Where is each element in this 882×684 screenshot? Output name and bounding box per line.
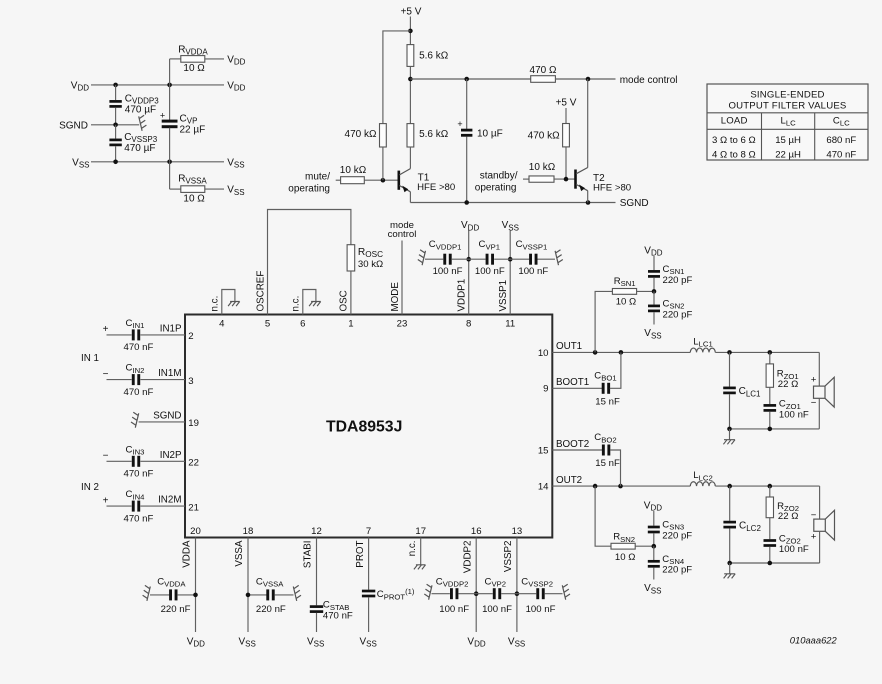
- node CSN3-CSN4: [652, 544, 657, 549]
- svg-text:100 nF: 100 nF: [779, 409, 809, 420]
- svg-text:PROT: PROT: [355, 540, 366, 567]
- signal ground CVDDA: [143, 585, 151, 601]
- svg-text:VSSP2: VSSP2: [503, 541, 514, 573]
- signal ground left of CVDDP2: [424, 584, 432, 600]
- svg-text:SGND: SGND: [153, 411, 181, 422]
- resistor RVDDA: [169, 59, 171, 85]
- svg-text:OUT2: OUT2: [556, 475, 582, 486]
- wire pin 20 VDDA: [195, 538, 197, 633]
- node CZO1 bottom: [768, 427, 773, 432]
- svg-text:3: 3: [188, 376, 193, 387]
- svg-text:14: 14: [538, 482, 549, 493]
- svg-text:220 pF: 220 pF: [662, 565, 692, 576]
- svg-text:9: 9: [543, 384, 548, 395]
- wire MODE pin: [401, 241, 403, 315]
- svg-text:5: 5: [265, 319, 270, 330]
- svg-text:LOAD: LOAD: [721, 115, 748, 126]
- node T1 base: [381, 178, 386, 183]
- svg-text:standby/: standby/: [480, 171, 518, 182]
- net SGND (top-left): [91, 124, 139, 126]
- wire pin 13 VSSP2: [516, 538, 518, 633]
- svg-text:010aaa622: 010aaa622: [790, 635, 838, 646]
- svg-text:IN 2: IN 2: [81, 482, 99, 493]
- svg-text:100 nF: 100 nF: [433, 266, 463, 277]
- signal ground right of CVSSP1: [555, 250, 563, 266]
- svg-text:10 Ω: 10 Ω: [616, 297, 637, 308]
- svg-text:VDDP1: VDDP1: [457, 279, 468, 312]
- svg-text:15 nF: 15 nF: [595, 458, 620, 469]
- svg-text:n.c.: n.c.: [210, 296, 221, 312]
- svg-text:−: −: [103, 369, 109, 380]
- signal ground left of CVDDP1: [418, 250, 426, 266]
- node pin11 decoupling: [508, 257, 513, 262]
- resistor RSN2 snubber: [595, 486, 611, 546]
- pin 17 n.c. ground wire: [420, 538, 422, 565]
- input coupling capacitor CIN2: [107, 379, 132, 381]
- svg-text:−: −: [811, 398, 817, 409]
- wire pin 18 VSSA: [247, 538, 249, 633]
- svg-text:+: +: [160, 111, 165, 121]
- svg-text:mute/: mute/: [305, 172, 330, 183]
- capacitor CVP (electrolytic 22uF): [169, 85, 171, 120]
- svg-text:15 µH: 15 µH: [775, 135, 801, 146]
- node CLC2 top: [727, 484, 732, 489]
- svg-text:TDA8953J: TDA8953J: [326, 418, 402, 435]
- svg-text:11: 11: [505, 319, 515, 330]
- resistor RZO1: [769, 352, 771, 364]
- node pin18 cap: [246, 593, 251, 598]
- capacitor CVSSP1: [529, 254, 537, 265]
- node OUT2-CBO2: [618, 484, 623, 489]
- svg-text:−: −: [103, 451, 109, 462]
- svg-text:+: +: [103, 495, 109, 506]
- svg-text:+: +: [811, 374, 817, 385]
- svg-text:13: 13: [512, 526, 523, 537]
- resistor RZO2: [769, 486, 771, 497]
- node OUT1-CBO1: [619, 350, 624, 355]
- svg-text:220 pF: 220 pF: [663, 309, 693, 320]
- chassis ground pin 4: [228, 302, 240, 307]
- node pin8 decoupling: [466, 257, 471, 262]
- capacitor CSN3: [653, 511, 655, 526]
- svg-text:BOOT2: BOOT2: [556, 439, 589, 450]
- net VSS (left supply rail): [91, 161, 224, 163]
- svg-text:1: 1: [348, 319, 353, 330]
- node VSS-CVSSP3: [113, 160, 118, 165]
- wire 470k to T1 base: [382, 147, 384, 181]
- resistor 10 kOhm T1: [336, 179, 341, 181]
- pin 6 wire and ground: [303, 290, 316, 315]
- node T2 collector tap: [586, 77, 591, 82]
- node OUT2-RSN2: [593, 484, 598, 489]
- svg-text:100 nF: 100 nF: [518, 266, 548, 277]
- loudspeaker channel 2: [819, 486, 821, 519]
- resistor 5.6 kOhm lower: [407, 124, 414, 147]
- svg-text:12: 12: [311, 526, 322, 537]
- svg-text:470 µF: 470 µF: [125, 105, 156, 116]
- svg-text:19: 19: [188, 418, 199, 429]
- node T2 emitter: [586, 200, 591, 205]
- capacitor CZO1: [769, 387, 771, 404]
- svg-text:IN1P: IN1P: [160, 324, 182, 335]
- svg-text:470 nF: 470 nF: [826, 150, 856, 161]
- svg-text:22 Ω: 22 Ω: [778, 379, 799, 390]
- svg-text:10 Ω: 10 Ω: [183, 63, 205, 74]
- wire LLC1 to CLC1: [715, 351, 819, 353]
- svg-text:HFE >80: HFE >80: [593, 182, 631, 193]
- svg-text:IN2P: IN2P: [160, 450, 182, 461]
- svg-text:n.c.: n.c.: [407, 541, 418, 557]
- svg-text:100 nF: 100 nF: [439, 604, 469, 615]
- capacitor CVSSP3: [115, 125, 117, 139]
- svg-text:HFE >80: HFE >80: [417, 182, 455, 193]
- pin 19 SGND wire: [139, 421, 185, 423]
- svg-text:3 Ω to 6 Ω: 3 Ω to 6 Ω: [712, 135, 756, 146]
- capacitor CVP1: [486, 254, 494, 265]
- inductor LLC2: [690, 482, 715, 486]
- node CLC2 bottom: [727, 561, 732, 566]
- svg-text:SGND: SGND: [620, 198, 649, 209]
- svg-text:4: 4: [219, 319, 225, 330]
- capacitor CVDDP3: [115, 85, 117, 100]
- svg-text:+: +: [457, 119, 462, 129]
- svg-text:100 nF: 100 nF: [482, 604, 512, 615]
- capacitor 10 uF electrolytic: [466, 79, 468, 129]
- wire T2 emitter to SGND: [587, 191, 589, 203]
- svg-text:470 kΩ: 470 kΩ: [345, 129, 377, 140]
- node RZO2 top: [768, 484, 773, 489]
- node CSN1-CSN2: [652, 289, 657, 294]
- wire 470k T2 to base: [565, 147, 567, 179]
- signal ground symbol (top-left): [139, 115, 147, 131]
- svg-text:BOOT1: BOOT1: [556, 377, 589, 388]
- node pin13 cap: [515, 591, 520, 596]
- svg-text:470 nF: 470 nF: [124, 469, 154, 480]
- resistor 10 kOhm T2: [523, 178, 529, 180]
- node 10uF top: [464, 77, 469, 82]
- resistor RSN1 snubber: [595, 291, 612, 352]
- svg-text:220 pF: 220 pF: [662, 530, 692, 541]
- svg-text:6: 6: [300, 319, 305, 330]
- wire LLC2 to CLC2: [715, 485, 819, 487]
- input coupling capacitor CIN1: [107, 334, 132, 336]
- resistor 470 Ohm: [531, 76, 556, 83]
- capacitor CVDDP2: [450, 588, 458, 599]
- svg-text:22 Ω: 22 Ω: [778, 511, 799, 522]
- pin 4 wire and ground: [222, 290, 235, 315]
- transistor T1: [399, 169, 411, 192]
- node +5V branch: [408, 29, 413, 34]
- svg-text:23: 23: [397, 319, 408, 330]
- capacitor CVSSP2: [536, 588, 544, 599]
- chassis ground pin 6: [309, 302, 321, 307]
- capacitor CBO1 bootstrap: [552, 387, 602, 389]
- svg-text:STABI: STABI: [303, 541, 314, 569]
- node VSS-CVP: [167, 160, 172, 165]
- node VDD-CVP: [167, 83, 172, 88]
- node VDD-CVDDP3: [113, 83, 118, 88]
- svg-text:470 nF: 470 nF: [124, 387, 154, 398]
- svg-text:MODE: MODE: [390, 282, 401, 312]
- svg-text:470 nF: 470 nF: [323, 611, 353, 622]
- svg-text:470 µF: 470 µF: [124, 143, 155, 154]
- wire T1 emitter: [409, 192, 411, 203]
- svg-text:OSCREF: OSCREF: [255, 271, 266, 312]
- capacitor CLC2: [729, 486, 731, 521]
- wire pin 8 VDDP1: [468, 231, 470, 315]
- capacitor CVP2: [493, 588, 501, 599]
- wire ROSC to pin 1: [350, 271, 352, 315]
- svg-text:10 Ω: 10 Ω: [183, 193, 205, 204]
- node pin16 cap: [474, 591, 479, 596]
- input coupling capacitor CIN3: [107, 460, 132, 462]
- svg-text:7: 7: [366, 526, 371, 537]
- resistor 470 kOhm T2: [563, 124, 570, 147]
- node CLC1 top: [727, 350, 732, 355]
- svg-text:30 kΩ: 30 kΩ: [358, 259, 383, 270]
- net OUT1: [552, 351, 690, 353]
- chassis ground stub channel 1: [729, 429, 731, 440]
- svg-text:OUT1: OUT1: [556, 341, 582, 352]
- node OUT1-RSN1: [593, 350, 598, 355]
- svg-text:18: 18: [243, 526, 254, 537]
- svg-text:16: 16: [471, 526, 482, 537]
- capacitor CVDDA: [150, 594, 169, 596]
- svg-text:OUTPUT FILTER VALUES: OUTPUT FILTER VALUES: [728, 101, 846, 112]
- svg-text:n.c.: n.c.: [291, 296, 302, 312]
- signal ground right of CVSSP2: [562, 584, 570, 600]
- resistor ROSC: [347, 245, 355, 271]
- svg-text:470 Ω: 470 Ω: [530, 65, 557, 76]
- svg-text:15 nF: 15 nF: [595, 396, 620, 407]
- resistor RVSSA: [169, 162, 171, 189]
- svg-text:IN 1: IN 1: [81, 353, 99, 364]
- capacitor CPROT: [368, 538, 370, 590]
- wire +5V T2: [565, 108, 567, 124]
- svg-text:100 nF: 100 nF: [779, 544, 809, 555]
- svg-text:220 nF: 220 nF: [256, 604, 286, 615]
- signal ground CVSSA: [293, 585, 301, 601]
- svg-text:680 nF: 680 nF: [826, 135, 856, 146]
- IC TDA8953J body: [185, 315, 552, 538]
- node mode line left: [408, 77, 413, 82]
- svg-text:IN1M: IN1M: [158, 368, 181, 379]
- capacitor CZO2: [769, 518, 771, 540]
- svg-text:2: 2: [188, 331, 193, 342]
- input coupling capacitor CIN4: [107, 505, 132, 507]
- svg-text:22: 22: [188, 458, 199, 469]
- svg-text:VDDA: VDDA: [182, 540, 193, 568]
- svg-text:VDDP2: VDDP2: [462, 541, 473, 574]
- capacitor CSN2: [653, 291, 655, 304]
- svg-text:10 kΩ: 10 kΩ: [529, 162, 556, 173]
- svg-text:22 µF: 22 µF: [180, 125, 206, 136]
- chassis ground stub channel 2: [729, 563, 731, 574]
- wire 5.6k to 5.6k: [409, 66, 411, 123]
- svg-text:10 Ω: 10 Ω: [615, 552, 636, 563]
- svg-text:+5 V: +5 V: [556, 98, 577, 109]
- wire T1 collector: [409, 147, 411, 169]
- svg-text:4 Ω to 8 Ω: 4 Ω to 8 Ω: [712, 150, 756, 161]
- capacitor CVSSA: [248, 594, 267, 596]
- wire to 470k branch: [383, 31, 411, 124]
- net SGND rail (bias circuit): [410, 202, 615, 204]
- svg-text:100 nF: 100 nF: [475, 266, 505, 277]
- node T2 base: [564, 177, 569, 182]
- svg-text:operating: operating: [475, 183, 517, 194]
- svg-text:15: 15: [538, 445, 549, 456]
- svg-text:470 kΩ: 470 kΩ: [528, 131, 560, 142]
- svg-text:+: +: [811, 531, 817, 542]
- wire decoupling rail 1: [425, 258, 443, 260]
- svg-text:OSC: OSC: [339, 290, 350, 311]
- node CLC1 bottom: [727, 427, 732, 432]
- svg-text:5.6 kΩ: 5.6 kΩ: [419, 51, 449, 62]
- wire pin 16 VDDP2: [475, 538, 477, 633]
- wire decoupling rail 2: [432, 593, 450, 595]
- svg-text:220 pF: 220 pF: [663, 275, 693, 286]
- svg-text:operating: operating: [288, 184, 330, 195]
- capacitor CSN1: [653, 256, 655, 270]
- node SGND-CVDDP3: [113, 123, 118, 128]
- chassis ground pin 17: [414, 565, 426, 570]
- svg-text:470 nF: 470 nF: [124, 342, 154, 353]
- net OUT2: [552, 485, 690, 487]
- net OUT2 return rail: [730, 562, 820, 564]
- node RZO1 top: [768, 350, 773, 355]
- svg-text:+5 V: +5 V: [401, 6, 422, 17]
- inductor LLC1: [690, 348, 715, 352]
- svg-text:IN2M: IN2M: [158, 495, 181, 506]
- capacitor CSTAB: [316, 538, 318, 606]
- wire OSCREF loop: [268, 210, 351, 315]
- svg-text:21: 21: [188, 502, 199, 513]
- table single-ended output filter values: [707, 84, 868, 160]
- svg-text:10 kΩ: 10 kΩ: [340, 165, 367, 176]
- capacitor CBO2 bootstrap: [552, 449, 602, 451]
- svg-text:SGND: SGND: [59, 120, 88, 131]
- net OUT1 return rail: [730, 428, 820, 430]
- resistor 5.6 kOhm upper: [407, 45, 414, 67]
- svg-text:VSSP1: VSSP1: [498, 280, 509, 312]
- svg-text:SINGLE-ENDED: SINGLE-ENDED: [750, 89, 824, 100]
- svg-text:220 nF: 220 nF: [161, 604, 191, 615]
- capacitor CVDDP1: [443, 254, 451, 265]
- svg-text:+: +: [103, 324, 109, 335]
- svg-text:17: 17: [415, 526, 426, 537]
- loudspeaker channel 1: [818, 352, 820, 386]
- wire pin 11 VSSP1: [509, 231, 511, 315]
- svg-text:100 nF: 100 nF: [526, 604, 556, 615]
- signal ground pin 19: [131, 412, 139, 428]
- svg-text:VSSA: VSSA: [234, 540, 245, 567]
- net VDD (left supply rail): [91, 84, 224, 86]
- svg-text:470 nF: 470 nF: [124, 513, 154, 524]
- resistor 470 kOhm T1: [380, 124, 387, 147]
- svg-text:control: control: [388, 229, 417, 240]
- capacitor CLC1: [729, 352, 731, 386]
- node 10uF bottom: [464, 200, 469, 205]
- net mode control line: [410, 78, 530, 80]
- svg-text:20: 20: [190, 526, 201, 537]
- svg-text:mode control: mode control: [620, 75, 678, 86]
- svg-text:10 µF: 10 µF: [477, 128, 503, 139]
- wire +5V down: [409, 17, 411, 45]
- svg-text:22 µH: 22 µH: [775, 150, 801, 161]
- svg-text:10: 10: [538, 348, 549, 359]
- svg-text:5.6 kΩ: 5.6 kΩ: [419, 129, 449, 140]
- transistor T2: [576, 168, 588, 191]
- wire 470 Ohm to mode control: [555, 78, 615, 80]
- capacitor CSN4: [653, 546, 655, 560]
- node pin20 cap: [193, 593, 198, 598]
- svg-text:8: 8: [466, 319, 471, 330]
- node CZO2 bottom: [768, 561, 773, 566]
- wire T2 collector to mode line: [587, 79, 589, 168]
- svg-text:−: −: [811, 510, 817, 521]
